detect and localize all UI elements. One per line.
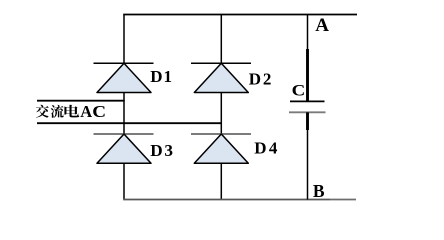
- svg-text:C: C: [92, 102, 106, 120]
- diode D1: [94, 63, 173, 92]
- wire: [37, 122, 222, 124]
- capacitor C: [289, 15, 326, 200]
- svg-text:D3: D3: [150, 141, 175, 160]
- wire: [123, 163, 125, 200]
- label 交流电AC: [36, 102, 106, 121]
- diode D4: [191, 134, 280, 163]
- svg-text:A: A: [80, 102, 92, 121]
- svg-text:C: C: [292, 81, 306, 99]
- svg-text:B: B: [313, 181, 325, 201]
- svg-text:D1: D1: [150, 67, 173, 86]
- wire: [220, 163, 222, 200]
- diode D2: [191, 63, 273, 92]
- wire: [220, 93, 222, 135]
- wire: [330, 199, 356, 201]
- wire: [37, 100, 125, 102]
- svg-text:A: A: [315, 15, 329, 36]
- wire: [123, 14, 357, 16]
- diode D3: [94, 134, 175, 163]
- svg-text:D4: D4: [254, 139, 280, 158]
- wire: [220, 15, 222, 64]
- wire: [123, 199, 330, 201]
- svg-text:D2: D2: [249, 70, 273, 89]
- wire: [123, 15, 125, 64]
- wire: [123, 93, 125, 135]
